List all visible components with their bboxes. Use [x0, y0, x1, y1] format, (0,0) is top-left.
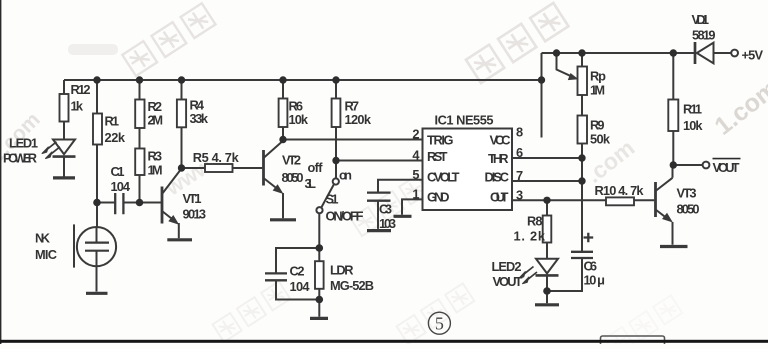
- svg-text:2: 2: [412, 127, 419, 142]
- svg-text:OUT: OUT: [490, 190, 509, 205]
- svg-text:VCC: VCC: [490, 133, 511, 148]
- svg-text:3: 3: [516, 187, 523, 202]
- svg-text:off: off: [308, 160, 324, 175]
- svg-text:9013: 9013: [183, 207, 207, 222]
- svg-text:CVOLT: CVOLT: [427, 170, 460, 185]
- svg-text:3L: 3L: [305, 176, 317, 191]
- svg-text:C6: C6: [584, 259, 598, 274]
- svg-text:50k: 50k: [590, 132, 611, 147]
- svg-text:VOUT: VOUT: [713, 160, 740, 175]
- svg-text:MG-52B: MG-52B: [330, 278, 374, 293]
- svg-text:8: 8: [516, 125, 523, 140]
- svg-text:R11: R11: [683, 102, 702, 117]
- svg-text:5: 5: [435, 314, 444, 334]
- svg-text:+5V: +5V: [742, 48, 764, 63]
- svg-text:5819: 5819: [692, 28, 716, 43]
- svg-text:C3: C3: [379, 202, 392, 217]
- svg-text:4: 4: [412, 148, 420, 163]
- svg-text:1.com: 1.com: [709, 74, 768, 141]
- svg-text:104: 104: [290, 279, 311, 294]
- svg-text:THR: THR: [488, 151, 509, 166]
- svg-text:VOUT: VOUT: [493, 274, 523, 289]
- svg-text:on: on: [339, 168, 352, 183]
- svg-text:1M: 1M: [590, 83, 605, 98]
- svg-text:VT3: VT3: [677, 186, 697, 201]
- svg-text:1. 2k: 1. 2k: [514, 229, 546, 244]
- svg-text:R8: R8: [527, 214, 543, 229]
- svg-text:LED1: LED1: [9, 136, 38, 151]
- svg-text:10k: 10k: [289, 112, 309, 127]
- svg-text:VD1: VD1: [692, 12, 710, 27]
- svg-text:S1: S1: [326, 192, 339, 207]
- svg-text:R12: R12: [71, 82, 91, 97]
- svg-text:5: 5: [412, 167, 419, 182]
- svg-text:10k: 10k: [683, 118, 703, 133]
- svg-text:R9: R9: [590, 118, 605, 133]
- svg-text:VT2: VT2: [282, 153, 301, 168]
- svg-text:LDR: LDR: [330, 263, 354, 278]
- svg-text:DISC: DISC: [485, 170, 510, 185]
- svg-text:1M: 1M: [148, 163, 163, 178]
- svg-text:R1: R1: [105, 114, 120, 129]
- svg-text:C1: C1: [111, 164, 125, 179]
- svg-text:RST: RST: [427, 149, 448, 164]
- svg-text:8050: 8050: [677, 202, 700, 217]
- svg-text:22k: 22k: [105, 130, 126, 145]
- svg-text:ON/OFF: ON/OFF: [326, 209, 364, 224]
- svg-text:8050: 8050: [282, 170, 304, 185]
- svg-text:1k: 1k: [71, 99, 84, 114]
- svg-text:R3: R3: [148, 149, 163, 164]
- svg-text:120k: 120k: [345, 112, 372, 127]
- svg-text:6: 6: [516, 145, 523, 160]
- svg-text:103: 103: [379, 216, 396, 231]
- svg-text:VT1: VT1: [183, 191, 202, 206]
- svg-text:LED2: LED2: [492, 259, 522, 274]
- svg-text:R5 4. 7k: R5 4. 7k: [193, 150, 240, 165]
- svg-text:C2: C2: [290, 264, 305, 279]
- svg-text:2M: 2M: [148, 113, 164, 128]
- svg-text:TRIG: TRIG: [427, 133, 454, 148]
- svg-text:10 μ: 10 μ: [584, 273, 606, 288]
- svg-text:7: 7: [516, 168, 523, 183]
- svg-text:R10 4. 7k: R10 4. 7k: [595, 183, 645, 198]
- svg-text:NK: NK: [35, 231, 51, 246]
- svg-text:MIC: MIC: [35, 247, 57, 262]
- svg-text:POWER: POWER: [3, 151, 37, 166]
- svg-text:33k: 33k: [190, 111, 209, 126]
- svg-text:Rp: Rp: [590, 69, 606, 84]
- svg-text:104: 104: [111, 179, 131, 194]
- svg-text:IC1 NE555: IC1 NE555: [435, 113, 494, 128]
- svg-text:GND: GND: [427, 190, 450, 205]
- svg-text:1: 1: [412, 186, 419, 201]
